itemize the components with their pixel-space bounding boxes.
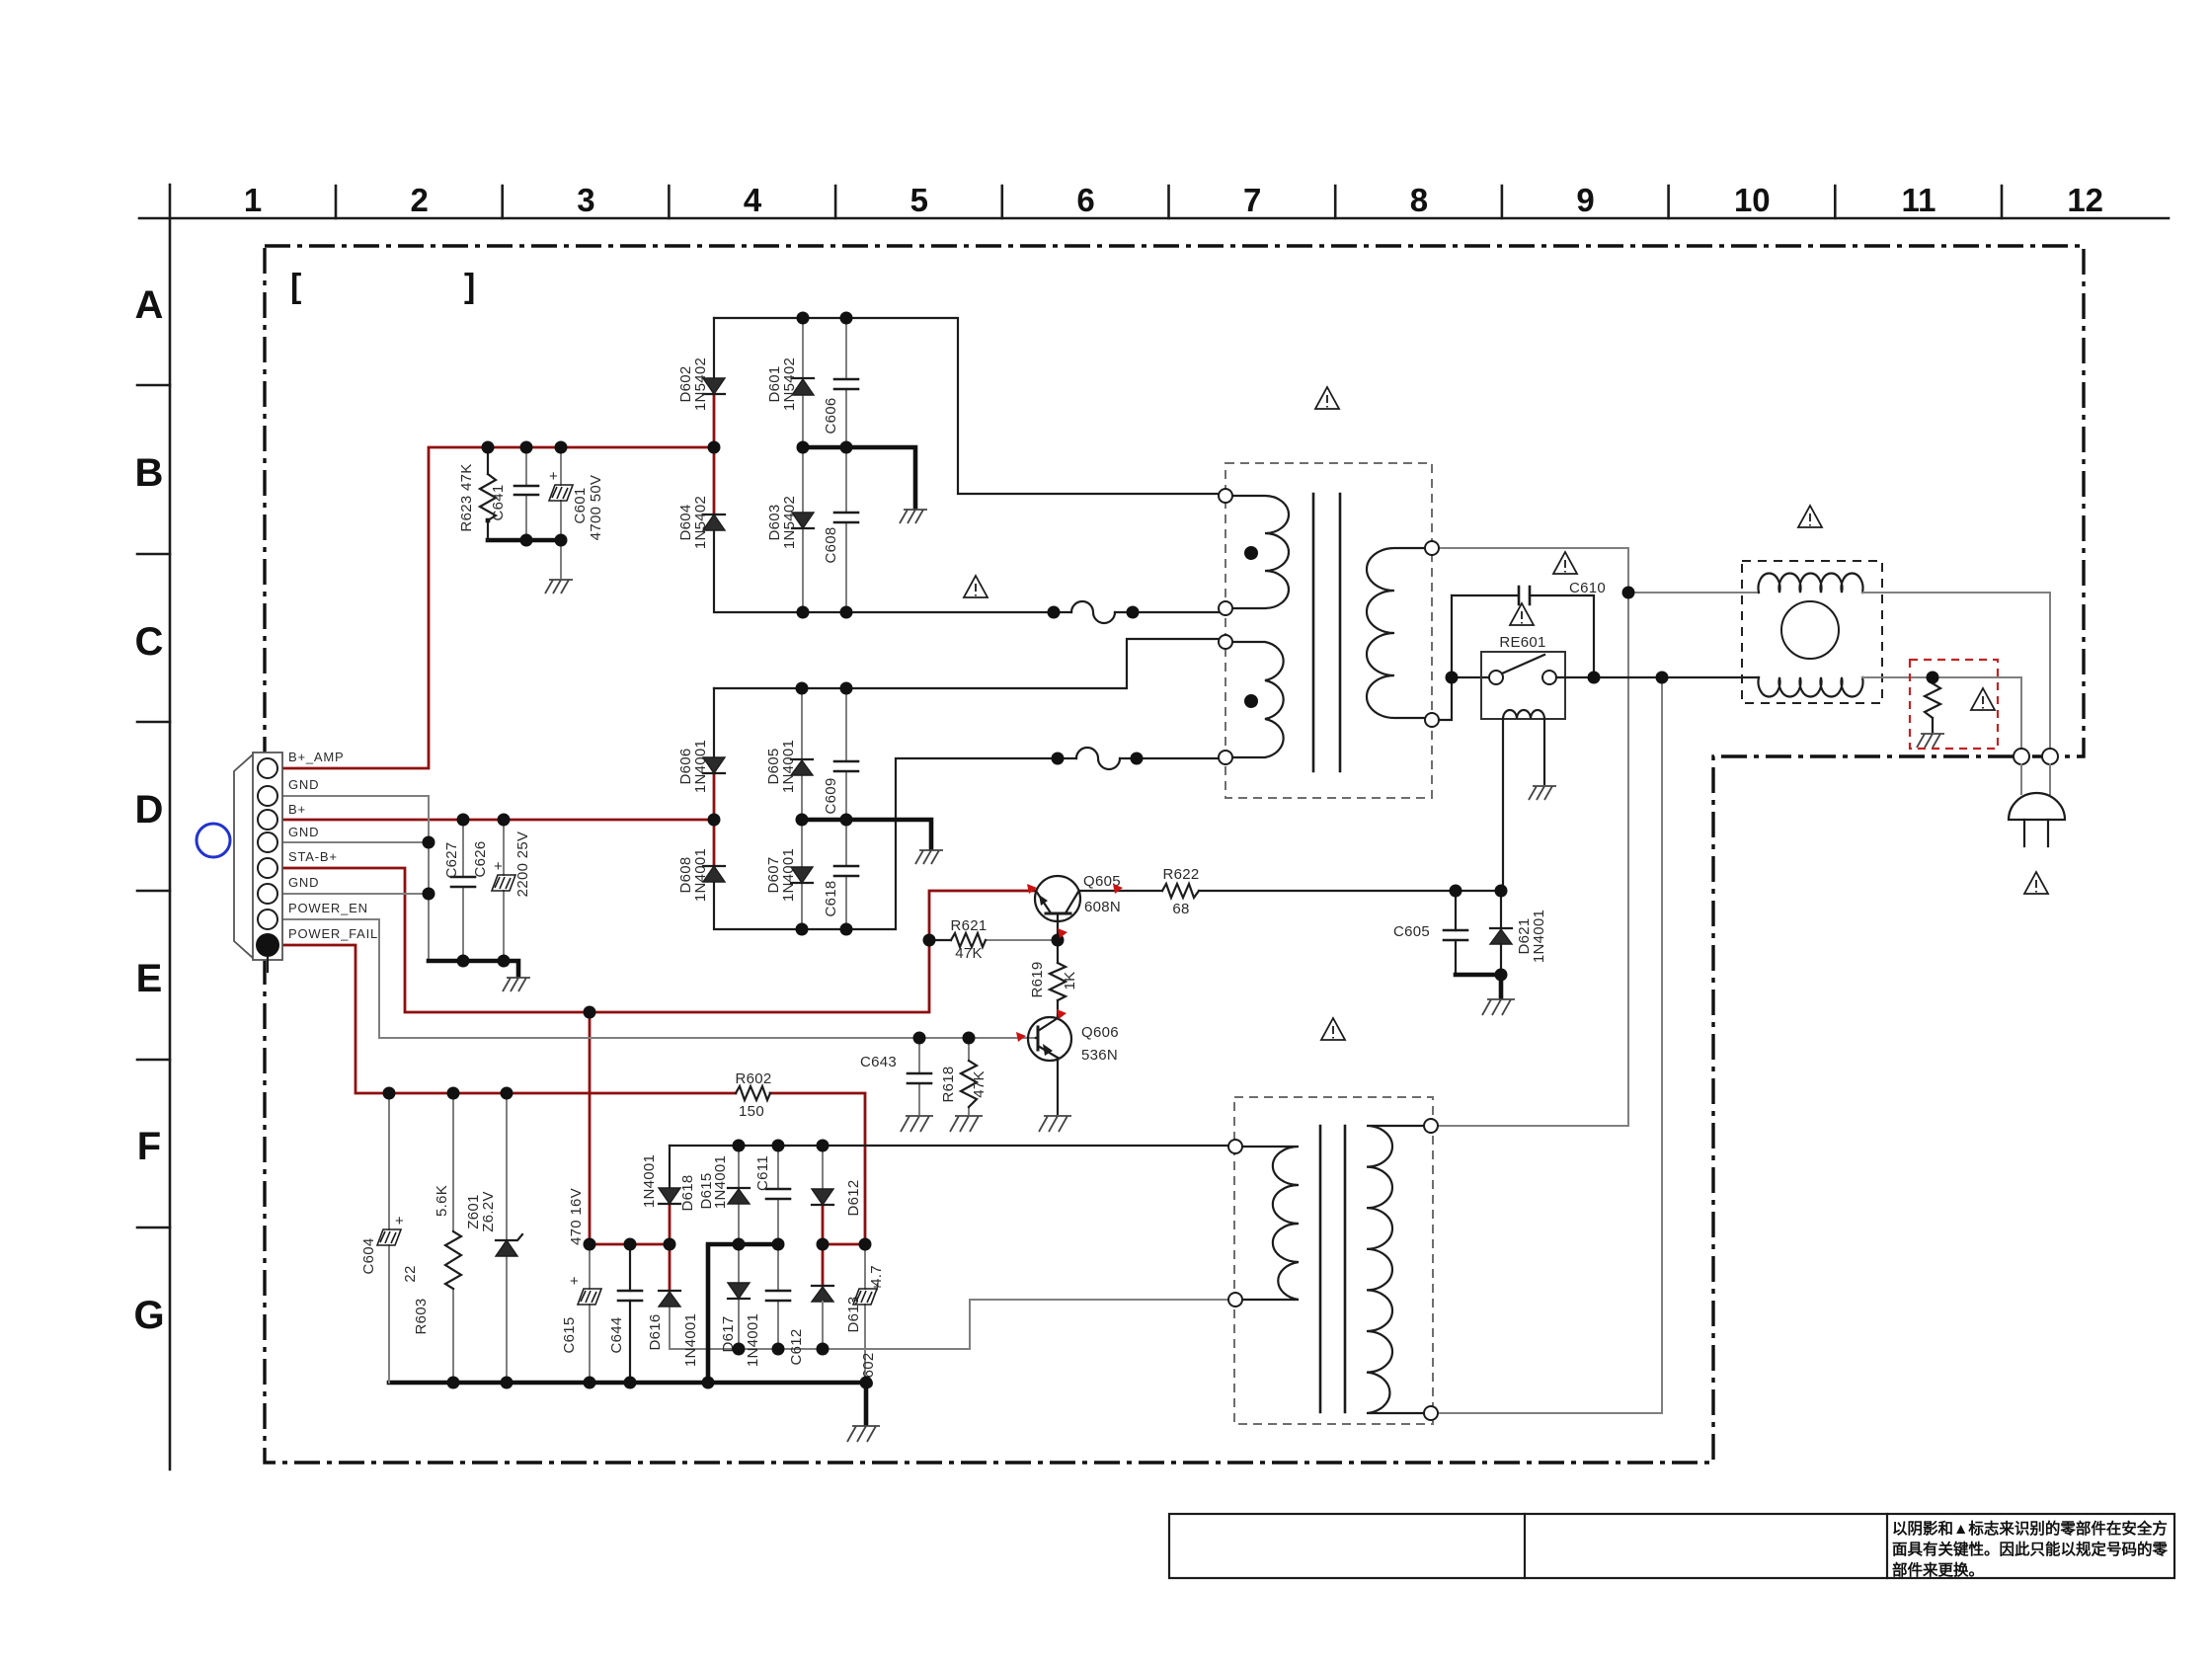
line filter top coil [1759, 574, 1863, 593]
T601 secondary pins [1425, 541, 1439, 555]
svg-text:1: 1 [244, 182, 262, 218]
svg-text:1N5402: 1N5402 [692, 357, 709, 411]
wire GND from connector pin6 [276, 893, 429, 895]
svg-text:Z6.2V: Z6.2V [480, 1191, 497, 1232]
wire B+ net from connector pin3 to lower bridge node [276, 819, 714, 822]
svg-text:47K: 47K [955, 945, 983, 962]
node junction dots low-volt block [383, 1087, 396, 1100]
wire POWER_EN net from connector pin7 to Q606 base [278, 919, 1036, 1038]
pin 7 POWER_EN [258, 910, 277, 929]
line filter bottom coil [1759, 677, 1863, 696]
diode D604 1N5402 [677, 496, 725, 549]
transformer T601 primary winding 2 [1232, 642, 1284, 757]
svg-text:12: 12 [2067, 182, 2103, 218]
svg-text:C605: C605 [1393, 923, 1430, 940]
capacitor C608 [823, 447, 858, 612]
capacitor C618 [823, 820, 858, 929]
wire relay output row to line filter bottom [1556, 676, 1759, 678]
wire STA-B+ net from connector pin5 to Q605 emitter [276, 868, 1036, 1012]
diode D613 1N4001 [812, 1286, 862, 1349]
resistor R621 [950, 917, 987, 962]
transistor Q605 2SB608 [1035, 873, 1121, 921]
resistor (protection) in red box [1925, 677, 1940, 732]
wire STA-B+ branch down to low-volt red rail [590, 1012, 670, 1244]
wire lower bridge mid bus to ground [802, 820, 931, 848]
svg-text:68: 68 [1172, 901, 1189, 917]
T601 primary2 pins [1219, 635, 1232, 649]
svg-text:150: 150 [739, 1103, 764, 1120]
T601 primary1 polarity dot [1244, 546, 1258, 560]
ground protection resistor [1917, 734, 1944, 748]
pin 1 B+_AMP [258, 758, 277, 778]
wire Q605 collector through R622 to C605/D621 node [1079, 890, 1501, 892]
diode D608 1N4001 [677, 848, 725, 902]
svg-text:C644: C644 [608, 1316, 625, 1353]
AC plug [2021, 764, 2050, 794]
capacitor C611 [754, 1146, 790, 1244]
svg-text:+: + [395, 1213, 404, 1229]
capacitor C644 [608, 1244, 642, 1383]
svg-text:+: + [549, 468, 558, 485]
ground upper bridge mid [900, 510, 927, 523]
relay arm [1502, 655, 1544, 673]
wire GND from connector pin4 [276, 841, 429, 843]
warning triangle above T601 [1315, 387, 1339, 409]
wire R621 output to Q605 base node [986, 939, 1058, 941]
pin 6 GND [258, 884, 277, 904]
svg-text:4.7: 4.7 [868, 1265, 885, 1287]
warning triangle above line filter [1798, 506, 1822, 527]
svg-text:Q606: Q606 [1081, 1024, 1119, 1041]
wire AC line down to T602 secondary top pin [1438, 593, 1628, 1126]
wire AC line down to T602 secondary bottom pin [1438, 677, 1662, 1413]
T602 left pins [1228, 1140, 1242, 1153]
svg-text:C618: C618 [823, 880, 839, 916]
wire R621 left lead [929, 939, 951, 941]
capacitor C626 (electrolytic 2200 25V) [472, 820, 531, 961]
svg-text:1N5402: 1N5402 [781, 496, 798, 549]
svg-text:]: ] [464, 268, 475, 305]
svg-text:C641: C641 [490, 484, 507, 520]
svg-text:B+_AMP: B+_AMP [288, 750, 344, 764]
diode D602 1N5402 [677, 318, 725, 411]
wire red leg D606-D608 [713, 773, 716, 866]
wire red leg D602-D604 [713, 394, 716, 515]
resistor R618 [940, 1038, 987, 1114]
transformer T601 secondary winding [1367, 548, 1426, 718]
node junction dots transistor block [923, 934, 936, 947]
svg-text:G: G [133, 1294, 164, 1337]
svg-text:GND: GND [288, 825, 319, 839]
pin 2 GND [258, 786, 277, 806]
svg-text:3: 3 [577, 182, 594, 218]
node junction dots lower bridge [457, 814, 470, 827]
svg-text:1N4001: 1N4001 [780, 848, 797, 902]
wire low-volt rectifier bottom bus to T602 winding [670, 1300, 1228, 1349]
svg-text:1N4001: 1N4001 [1531, 910, 1547, 963]
relay contacts [1489, 671, 1503, 684]
diode D615 1N4001 [698, 1146, 750, 1244]
red dashed protection box [1910, 660, 1998, 749]
svg-text:C: C [135, 620, 164, 664]
diode D603 1N5402 [766, 447, 814, 612]
transformer T601 dashed outline [1225, 463, 1432, 798]
svg-text:以阴影和▲标志来识别的零部件在安全方: 以阴影和▲标志来识别的零部件在安全方 [1892, 1519, 2168, 1538]
wire C605/D621 bottom to ground [1456, 975, 1501, 997]
svg-text:1N5402: 1N5402 [692, 496, 709, 549]
diode D601 1N5402 [766, 318, 814, 447]
svg-text:D: D [135, 788, 164, 831]
capacitor C641 [490, 447, 538, 540]
T602 core [1320, 1126, 1345, 1412]
svg-text:C612: C612 [788, 1328, 805, 1365]
relay coil [1503, 710, 1544, 719]
relay RE601 box [1481, 652, 1565, 719]
ground Q606 emitter [1039, 1116, 1071, 1132]
svg-text:536N: 536N [1081, 1047, 1118, 1064]
svg-text:R623 47K: R623 47K [458, 463, 475, 531]
wire lower bridge top bus jog to T601 primary2 top pin [714, 639, 1219, 688]
wire filter bottom through protection node to plug [1862, 677, 2021, 749]
wire from T601 secondary top pin to line filter top [1439, 548, 1759, 593]
diode D616 1N4001 [647, 1291, 699, 1367]
svg-text:C615: C615 [561, 1316, 578, 1353]
pin 5 STA-B+ [258, 858, 277, 878]
wire low-volt rectifier top bus [670, 1145, 1228, 1147]
capacitor C605 [1393, 891, 1467, 975]
revision table box [1169, 1514, 2174, 1578]
wire B+_AMP net from connector pin1 up to top red bus [276, 447, 714, 768]
svg-text:1N4001: 1N4001 [692, 740, 709, 793]
capacitor C627 [443, 820, 475, 961]
ground C601 [545, 580, 573, 594]
zener Z601 Z6.2V [465, 1093, 522, 1383]
ground C643 [901, 1116, 933, 1132]
svg-text:GND: GND [288, 875, 319, 890]
svg-text:面具有关键性。因此只能以规定号码的零: 面具有关键性。因此只能以规定号码的零 [1892, 1540, 2169, 1558]
svg-text:47K: 47K [971, 1070, 987, 1098]
relay coil leads [1503, 719, 1544, 891]
svg-text:1N4001: 1N4001 [641, 1154, 658, 1208]
ground main bus [847, 1426, 880, 1442]
wire red leg D618-D616 [669, 1204, 671, 1291]
svg-text:2200 25V: 2200 25V [514, 831, 531, 898]
wire lower bridge bottom bus jog to fuse row to T601 primary2 bottom pin [714, 758, 1219, 929]
wire POWER_FAIL net from connector pin8 through R602 row [278, 945, 736, 1093]
wire low-volt 0V thick rail [708, 1244, 778, 1383]
wire GND from connector pin2 down to cap bottom bus [276, 796, 429, 961]
resistor R603 5.6K [413, 1093, 461, 1383]
svg-text:470 16V: 470 16V [568, 1188, 585, 1245]
diode D605 1N4001 [765, 688, 813, 820]
svg-text:R619: R619 [1029, 961, 1046, 997]
svg-text:部件来更换。: 部件来更换。 [1892, 1560, 1984, 1579]
svg-text:4: 4 [744, 182, 762, 218]
svg-text:C604: C604 [360, 1237, 377, 1274]
node blue marker circle [197, 824, 230, 857]
svg-text:E: E [136, 957, 163, 1000]
svg-text:22: 22 [402, 1265, 419, 1282]
wire red leg D612-D613 [822, 1205, 825, 1286]
svg-text:C601: C601 [572, 487, 589, 523]
svg-text:D612: D612 [845, 1179, 862, 1216]
wire upper bridge bottom bus with fuse row to T601 primary1 bottom pin [714, 530, 1219, 612]
svg-text:D618: D618 [679, 1174, 696, 1211]
border crossing circles [2014, 749, 2029, 764]
transistor Q606 2SC536 [1028, 1016, 1119, 1064]
svg-text:C626: C626 [472, 840, 489, 877]
svg-text:5: 5 [910, 182, 928, 218]
block boundary dash-dot outline [265, 246, 2084, 1463]
capacitor C615 (electrolytic 470 16V) [561, 1188, 601, 1383]
svg-text:10: 10 [1734, 182, 1771, 218]
svg-text:R622: R622 [1162, 866, 1199, 883]
capacitor C604 (electrolytic 22) [360, 1093, 419, 1383]
wire C627/C626 bottom bus [429, 961, 518, 976]
ground R618 [950, 1116, 983, 1132]
transformer T601 primary winding 1 [1232, 496, 1289, 608]
svg-text:A: A [135, 283, 164, 327]
svg-text:STA-B+: STA-B+ [288, 849, 338, 864]
red marker arrows [1027, 884, 1037, 894]
T602 right pins [1424, 1119, 1438, 1133]
pin 4 GND [258, 832, 277, 852]
svg-text:R618: R618 [940, 1066, 957, 1102]
svg-text:RE601: RE601 [1499, 634, 1545, 651]
warning triangle near upper fuse [964, 576, 987, 597]
ground lower bridge mid [915, 850, 943, 864]
svg-text:1N4001: 1N4001 [682, 1313, 699, 1367]
svg-text:C606: C606 [823, 397, 839, 434]
svg-text:1N4001: 1N4001 [712, 1155, 729, 1209]
capacitor C601 (electrolytic) [549, 447, 604, 540]
T601 primary2 polarity dot [1244, 694, 1258, 708]
svg-text:POWER_FAIL: POWER_FAIL [288, 926, 378, 941]
capacitor C610 [1452, 595, 1594, 677]
svg-text:8: 8 [1410, 182, 1428, 218]
line filter dashed box [1742, 561, 1882, 703]
resistor R619 [1029, 961, 1078, 1000]
pin stub below connector [267, 957, 269, 972]
diode D621 1N4001 [1490, 891, 1547, 975]
diode D607 1N4001 [765, 820, 813, 929]
svg-text:R621: R621 [950, 917, 987, 934]
wire R623/C641/C601 bottom bus [488, 520, 561, 540]
svg-text:1N4001: 1N4001 [692, 848, 709, 902]
warning triangle below plug [2024, 872, 2048, 894]
wire Q605 emitter-base chain to R619 [1057, 921, 1059, 1016]
diode D612 1N4001 [812, 1146, 862, 1217]
svg-text:C608: C608 [823, 526, 839, 563]
wire T601 secondary bottom to relay and C610 [1439, 595, 1489, 720]
capacitor C643 [860, 1038, 931, 1114]
svg-text:GND: GND [288, 777, 319, 792]
resistor R623 [458, 447, 496, 540]
svg-text:B+: B+ [288, 802, 306, 817]
svg-text:R602: R602 [735, 1070, 771, 1087]
ground C627/C626 [503, 978, 530, 991]
resistor R622 [1162, 866, 1200, 917]
wire right red rail of low-volt block [823, 1243, 865, 1246]
svg-text:C609: C609 [823, 777, 839, 814]
connector body [253, 752, 282, 960]
ruler top ticks [336, 186, 2002, 218]
ruler left line [169, 185, 172, 1469]
svg-text:5.6K: 5.6K [434, 1185, 450, 1217]
ground D621 [1482, 999, 1515, 1015]
capacitor C612 [766, 1244, 805, 1366]
node dots ac rows [1622, 587, 1635, 599]
ruler left ticks [137, 385, 170, 1227]
T601 primary1 pins [1219, 489, 1232, 503]
svg-text:F: F [137, 1125, 161, 1168]
svg-text:6: 6 [1076, 182, 1094, 218]
wire C601 lead to ground [560, 540, 562, 578]
wire upper bridge top bus to T601 primary1 top pin [714, 318, 1219, 494]
svg-text:C610: C610 [1569, 580, 1606, 596]
svg-text:11: 11 [1902, 182, 1936, 218]
svg-text:1N5402: 1N5402 [781, 357, 798, 411]
warning triangle middle area [1321, 1018, 1345, 1040]
transformer T602 secondary winding (right) [1367, 1126, 1425, 1413]
capacitor C606 [823, 318, 858, 447]
diode D618 1N4001 [641, 1146, 696, 1212]
capacitor C609 [823, 688, 858, 820]
svg-text:+: + [494, 858, 503, 875]
fuse lower (fusible link symbol) [1076, 748, 1120, 769]
T601 core [1313, 494, 1340, 771]
ruler top line [139, 217, 2169, 220]
resistor R602 [735, 1070, 771, 1120]
svg-text:1N4001: 1N4001 [745, 1313, 761, 1367]
svg-text:POWER_EN: POWER_EN [288, 901, 368, 915]
diode D617 1N4001 [720, 1244, 761, 1367]
transformer T602 primary winding (left) [1242, 1147, 1299, 1300]
svg-text:B: B [135, 451, 164, 495]
node dot protection [1927, 672, 1939, 684]
svg-text:9: 9 [1576, 182, 1594, 218]
diode D606 1N4001 [677, 688, 725, 793]
pin 8 POWER_FAIL (filled) [256, 933, 279, 957]
wire filter top to plug [1862, 593, 2050, 749]
svg-text:C611: C611 [754, 1155, 771, 1191]
wire main low-volt ground bus [389, 1383, 866, 1424]
warning triangle above RE601 [1510, 603, 1534, 625]
svg-text:608N: 608N [1084, 899, 1121, 915]
pin 3 B+ [258, 810, 277, 830]
svg-text:D616: D616 [647, 1313, 664, 1350]
node junction dots upper area [482, 441, 495, 454]
svg-text:1N4001: 1N4001 [780, 740, 797, 793]
wire upper bridge mid bus to ground [803, 447, 915, 508]
warning triangle above C610 [1553, 552, 1577, 574]
warning triangle in protection box [1971, 688, 1995, 710]
line filter core circle [1781, 601, 1839, 659]
svg-text:1K: 1K [1062, 972, 1078, 990]
wire Q606 emitter to ground [1057, 1060, 1059, 1114]
svg-text:+: + [570, 1273, 579, 1290]
fuse upper (fusible link symbol) [1071, 601, 1115, 623]
svg-text:7: 7 [1243, 182, 1261, 218]
svg-text:4700 50V: 4700 50V [588, 475, 604, 541]
svg-text:C643: C643 [860, 1054, 897, 1070]
svg-text:2: 2 [411, 182, 429, 218]
wire R602 output down right side of low-volt block [770, 1093, 865, 1244]
capacitor C602 (electrolytic 4.7) [853, 1244, 885, 1389]
svg-text:R603: R603 [413, 1298, 430, 1334]
svg-text:C627: C627 [443, 841, 460, 878]
ground relay coil [1529, 786, 1556, 800]
svg-text:[: [ [290, 268, 301, 305]
transformer T602 dashed outline [1234, 1097, 1433, 1424]
